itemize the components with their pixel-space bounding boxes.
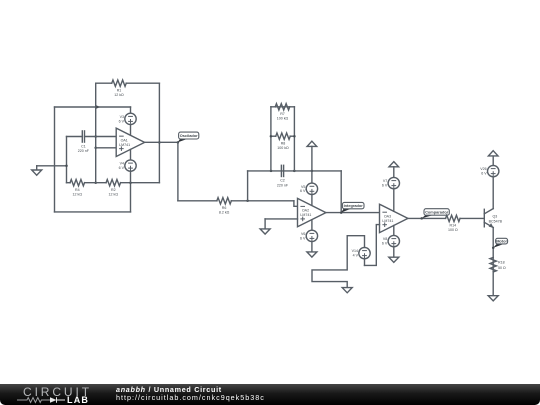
wire: arrow to V7 <box>393 167 395 178</box>
svg-text:6 V: 6 V <box>300 189 306 193</box>
svg-text:OA1: OA1 <box>121 138 128 142</box>
svg-text:6 V: 6 V <box>300 236 306 240</box>
voltage source V8 <box>382 235 400 246</box>
wire: OA3 V- to V8 <box>393 226 395 236</box>
junction flag Integrador <box>340 211 343 214</box>
junction flag Comparador <box>420 217 423 220</box>
flag Motor <box>493 238 507 247</box>
svg-text:Integrador: Integrador <box>344 203 364 208</box>
wire: R7 row <box>271 106 295 108</box>
svg-text:OA3: OA3 <box>384 214 391 218</box>
wire: V3 to OA1 V+ pin <box>130 125 132 136</box>
junction feedback tap <box>246 200 249 203</box>
svg-text:V7: V7 <box>383 179 387 183</box>
flag Oscilador <box>178 132 199 142</box>
svg-text:R8: R8 <box>281 141 286 145</box>
wire: node row to V3 drop <box>55 106 131 108</box>
resistor R4 <box>70 180 84 186</box>
svg-text:LM741: LM741 <box>119 143 130 147</box>
svg-text:V26: V26 <box>480 167 486 171</box>
junction + input rail <box>94 147 97 150</box>
wire: OA1 V- pin to V4 <box>130 150 132 161</box>
wire: output drop <box>177 142 179 200</box>
svg-text:V3: V3 <box>120 115 124 119</box>
svg-text:R2: R2 <box>111 188 116 192</box>
CircuitLab logo text <box>23 385 92 399</box>
wire: left rail to R4 <box>66 137 68 183</box>
flag Integrador <box>341 202 364 212</box>
ground (oscillator left) <box>36 166 38 170</box>
resistor R18 <box>490 257 496 272</box>
logo squiggle: wire-resistor-diode <box>17 397 50 402</box>
wire: ground spur <box>37 165 67 167</box>
svg-text:R18: R18 <box>498 261 505 265</box>
svg-text:4 V: 4 V <box>353 254 359 258</box>
svg-text:C2: C2 <box>280 179 285 183</box>
wire: C1 row to - input <box>67 136 83 138</box>
ground below R18 <box>488 296 498 301</box>
wire: V5 to OA2 V+ <box>311 195 313 206</box>
capacitor C2 <box>280 165 282 176</box>
wire: mid-left rail <box>95 83 97 183</box>
svg-text:8.2 kΩ: 8.2 kΩ <box>219 211 230 215</box>
voltage source V14 <box>352 247 371 258</box>
wire: R14 to Q3 base <box>460 217 484 219</box>
resistor R8 <box>276 133 291 139</box>
wire: arrow to V5 <box>311 146 313 183</box>
op-amp OA1 <box>116 128 144 156</box>
wire: OA3 output to R14 <box>408 217 446 219</box>
svg-text:R1: R1 <box>117 88 122 92</box>
junction R8 right <box>293 135 296 138</box>
wire: R8 row <box>271 135 276 137</box>
voltage source V26 <box>480 165 499 176</box>
svg-text:100 Ω: 100 Ω <box>448 228 458 232</box>
svg-text:BC547B: BC547B <box>489 220 503 224</box>
voltage source V4 <box>119 160 137 171</box>
svg-text:Comparador: Comparador <box>425 209 449 214</box>
svg-text:6 V: 6 V <box>382 184 388 188</box>
ground below V8 <box>389 257 399 262</box>
wire: top feedback through R1 <box>96 82 112 84</box>
junction ground spur <box>65 165 68 168</box>
svg-text:6 V: 6 V <box>382 242 388 246</box>
wire: parallel left rail <box>270 107 272 171</box>
wire: OA2 - input jog <box>294 201 298 207</box>
junction C2 row left rail <box>270 170 273 173</box>
svg-text:220 nF: 220 nF <box>277 183 289 187</box>
ground at OA2 + <box>260 229 270 234</box>
wire: outer left rail <box>54 107 56 212</box>
svg-text:C1: C1 <box>81 144 86 148</box>
wire: V26 to arrow <box>492 156 494 166</box>
svg-text:Q3: Q3 <box>493 214 498 218</box>
transistor Q3 BC547B <box>484 209 502 228</box>
junction R8 left <box>270 135 273 138</box>
junction C2 row V5 rail <box>311 170 314 173</box>
junction C1 node <box>94 135 97 138</box>
svg-text:R7: R7 <box>280 112 285 116</box>
voltage source V6 <box>300 230 318 241</box>
wire: right rail <box>158 83 160 183</box>
svg-text:6 V: 6 V <box>119 166 125 170</box>
svg-text:Motor: Motor <box>496 239 507 244</box>
wire: collector to V26 <box>492 177 494 209</box>
junction V4/row <box>129 181 132 184</box>
svg-text:6 V: 6 V <box>481 172 487 176</box>
wire: V4 node down <box>130 183 132 212</box>
+V arrow above V7 <box>389 162 399 167</box>
svg-text:R6: R6 <box>222 206 227 210</box>
svg-text:12 kΩ: 12 kΩ <box>109 193 119 197</box>
svg-text:12 kΩ: 12 kΩ <box>73 193 83 197</box>
voltage source V7 <box>382 177 400 188</box>
op-amp OA3 <box>380 204 408 232</box>
svg-text:50 Ω: 50 Ω <box>498 266 506 270</box>
wire: OA1 output <box>145 141 178 143</box>
svg-text:R4: R4 <box>75 188 80 192</box>
wire: V14 bottom lead <box>364 259 366 266</box>
svg-text:220 nF: 220 nF <box>78 149 90 153</box>
resistor R2 <box>106 180 120 186</box>
svg-text:100 kΩ: 100 kΩ <box>277 146 289 150</box>
wire: C2 row <box>248 170 342 172</box>
wire: feedback rail left <box>247 171 249 201</box>
capacitor C1 <box>81 131 83 142</box>
svg-text:12 kΩ: 12 kΩ <box>114 93 124 97</box>
resistor R7 <box>275 104 290 110</box>
svg-text:LM741: LM741 <box>300 213 311 217</box>
voltage source V5 <box>300 183 318 194</box>
wire: to R6 to OA2 - input <box>178 200 217 202</box>
junction output/right rail <box>158 141 161 144</box>
svg-text:V8: V8 <box>383 237 387 241</box>
resistor R14 <box>446 215 461 221</box>
wire: V4 to row <box>130 171 132 182</box>
ground below V6 <box>307 252 317 257</box>
svg-text:6 V: 6 V <box>119 119 125 123</box>
+V arrow above V5 <box>307 141 317 146</box>
wire: feedback rail right <box>340 171 342 213</box>
svg-text:V14: V14 <box>352 249 358 253</box>
op-amp OA2 <box>298 198 326 226</box>
wire: OA2 out to OA3 - <box>326 212 380 214</box>
resistor R1 <box>112 80 126 86</box>
svg-text:OA2: OA2 <box>302 209 309 213</box>
wire: + input to ground <box>264 219 266 229</box>
footer bar <box>0 384 540 405</box>
svg-text:Oscilador: Oscilador <box>180 133 198 138</box>
wire: OA2 V- to V6 <box>311 220 313 230</box>
wire: OA2 + input <box>265 218 297 220</box>
+V arrow above V26 <box>488 151 498 156</box>
junction C2 row right rail <box>293 170 296 173</box>
svg-text:R14: R14 <box>450 224 457 228</box>
junction arrow on wire at rail crossing <box>96 105 100 109</box>
voltage source V3 <box>119 113 137 124</box>
junction R4/R2 node <box>94 181 97 184</box>
resistor R6 <box>217 198 231 204</box>
flag Comparador <box>422 209 450 219</box>
wire: down to V3 <box>130 107 132 113</box>
wire: + input <box>96 147 117 149</box>
ground symbol left <box>32 170 42 175</box>
wire: bottom return <box>55 211 131 213</box>
wire: emitter chain <box>492 228 494 296</box>
wire: V7 to OA3 V+ <box>393 189 395 212</box>
junction flag Oscilador <box>177 141 180 144</box>
junction flag Motor <box>492 246 495 249</box>
svg-text:V5: V5 <box>301 185 305 189</box>
wire: OA3 + input rail <box>365 225 380 266</box>
svg-text:LM741: LM741 <box>382 219 393 223</box>
wire: V8 to ground <box>393 247 395 257</box>
svg-text:V4: V4 <box>120 162 124 166</box>
ground V14 loop <box>342 288 352 293</box>
svg-text:100 kΩ: 100 kΩ <box>277 117 289 121</box>
wire: parallel right rail <box>293 107 295 171</box>
wire: V6 to ground <box>311 242 313 252</box>
svg-text:V6: V6 <box>301 232 305 236</box>
wire: V14 top staircase to ground <box>312 236 365 288</box>
wire: R4/R2 row <box>67 182 71 184</box>
